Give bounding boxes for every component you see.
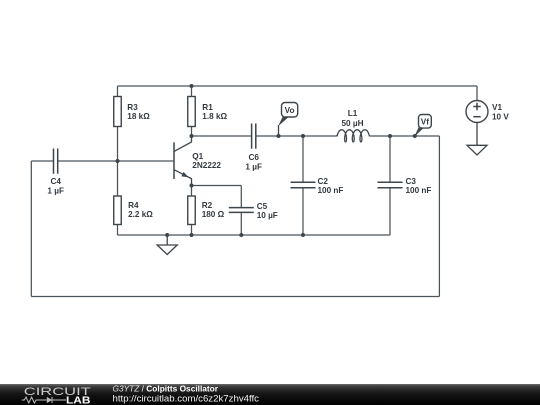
ground (V1) [467,145,487,155]
svg-text:V1: V1 [492,103,502,112]
voltage source V1 [466,101,488,146]
svg-text:C3: C3 [406,177,417,186]
wire left C4 lead [31,160,53,162]
label R4 value [128,201,153,219]
label L1 value [341,109,363,128]
wire base [58,160,174,162]
capacitor C3 [378,182,403,187]
resistor R4 [114,196,122,225]
svg-text:1.8 kΩ: 1.8 kΩ [202,112,227,121]
label R2 value [202,201,225,219]
node flag Vf [414,115,431,137]
svg-text:180 Ω: 180 Ω [202,210,225,219]
wire R4 bottom lead [117,225,119,236]
resistor R2 [188,196,196,225]
inductor L1 [336,130,370,142]
svg-text:R1: R1 [202,103,213,112]
wire C2 top lead [302,136,304,182]
svg-text:R2: R2 [202,201,213,210]
svg-text:C4: C4 [50,177,61,186]
capacitor C5 [229,208,254,213]
wire C5 top lead [240,186,242,208]
svg-text:L1: L1 [348,109,358,118]
resistor R3 [114,97,122,127]
wire R4 top lead [117,161,119,196]
label C2 value [318,177,344,195]
node flag Vo [278,103,298,137]
wire C3 top lead [389,136,391,182]
ground (main) [157,235,177,255]
wire V1 top lead [476,86,478,101]
wire C3 bottom lead [389,188,391,235]
svg-text:Vf: Vf [421,118,429,127]
capacitor C2 [291,182,316,187]
wire R3 top lead [117,86,119,97]
svg-text:C6: C6 [248,153,259,162]
wire C6 to L1 [256,135,336,137]
svg-text:10 µF: 10 µF [257,211,278,220]
wire L1 to corner [370,135,440,137]
label Q1 value [192,152,221,170]
wire R2 bottom lead [191,225,193,236]
svg-text:2N2222: 2N2222 [192,161,221,170]
capacitor C6 [252,124,256,149]
wire right vertical feedback [438,136,440,297]
wire C5 bottom lead [240,212,242,235]
label C3 value [406,177,432,195]
svg-text:C5: C5 [257,202,268,211]
svg-text:LAB: LAB [66,396,91,405]
svg-text:G3YTZ / Colpitts Oscillator: G3YTZ / Colpitts Oscillator [113,384,219,393]
node junction dots [116,84,417,237]
wire R1 bottom lead [191,127,193,137]
svg-text:http://circuitlab.com/c6z2k7zh: http://circuitlab.com/c6z2k7zhv4ffc [113,393,260,403]
wire emitter node to C5 branch [192,185,242,187]
svg-text:10 V: 10 V [492,113,509,122]
wire R3 bottom lead [117,127,119,162]
label R3 value [127,103,150,121]
resistor R1 [188,97,196,127]
label C5 value [257,202,278,220]
svg-text:1 µF: 1 µF [47,186,64,195]
svg-text:50 µH: 50 µH [341,119,363,128]
wire bottom rail [118,234,391,236]
svg-text:C2: C2 [318,177,329,186]
transistor Q1 [174,136,192,186]
wire left vertical feedback [30,161,32,297]
label C6 value [245,153,262,171]
capacitor C4 [54,149,58,174]
wire R2 top lead [191,186,193,197]
wire R1 top lead [191,86,193,97]
wire bottom feedback [31,296,439,298]
label R1 value [202,103,227,121]
wire C2 bottom lead [302,188,304,235]
svg-text:R4: R4 [128,201,139,210]
svg-text:2.2 kΩ: 2.2 kΩ [128,210,153,219]
label V1 value [492,103,509,122]
svg-text:100 nF: 100 nF [318,186,344,195]
svg-text:1 µF: 1 µF [245,162,262,171]
svg-text:18 kΩ: 18 kΩ [127,112,150,121]
svg-text:100 nF: 100 nF [406,186,432,195]
CircuitLab logo resistor-diode glyph [22,397,66,403]
svg-text:Q1: Q1 [192,152,203,161]
wire collector to C6 [192,135,252,137]
svg-text:Vo: Vo [285,106,295,115]
wire top rail [118,85,478,87]
svg-text:R3: R3 [127,103,138,112]
label C4 value [47,177,64,195]
